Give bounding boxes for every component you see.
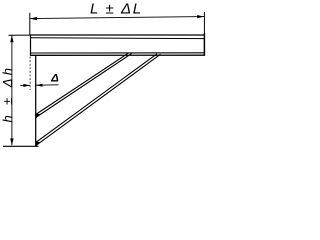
beam left end edge xyxy=(30,35,32,56)
beam bottom chord inner line xyxy=(31,52,205,54)
dimension h: bottom arrowhead xyxy=(10,138,13,145)
dimension L: left extension line xyxy=(29,13,31,35)
dimension L: right arrowhead xyxy=(197,15,204,18)
lower diagonal brace line 2 xyxy=(36,54,161,146)
dimension Δ: left segment xyxy=(20,84,30,86)
dimension h: bottom extension line xyxy=(3,145,39,147)
beam bottom chord outer line xyxy=(31,54,205,56)
svg-text:h ± Δh: h ± Δh xyxy=(0,65,15,123)
upper diagonal brace line 2 xyxy=(36,54,132,118)
beam right end edge xyxy=(203,33,205,56)
dimension h: line xyxy=(11,35,13,145)
dimension Δ: right arrowhead (pointing left) xyxy=(36,84,43,87)
dimension Δ: left arrowhead (pointing right) xyxy=(23,84,30,87)
wall post xyxy=(35,56,37,147)
svg-text:L ± ΔL: L ± ΔL xyxy=(90,0,143,17)
svg-text:Δ: Δ xyxy=(50,72,59,84)
beam top chord inner line xyxy=(31,37,205,40)
dimension L: left arrowhead xyxy=(30,17,37,20)
dimension Δ: right segment xyxy=(36,84,59,86)
dimension h: top arrowhead xyxy=(10,35,13,42)
upper diagonal brace line 1 xyxy=(36,53,128,114)
beam top chord outer line xyxy=(31,34,205,36)
dimension L: line xyxy=(30,17,204,19)
lower brace joint blob xyxy=(35,142,40,147)
lower diagonal brace line 1 xyxy=(36,54,157,143)
upper brace joint blob xyxy=(35,114,40,119)
dimension h: top extension line xyxy=(9,34,31,36)
dimension L: right extension line xyxy=(203,12,205,33)
dimension Δ: dashed extension line xyxy=(29,57,31,91)
